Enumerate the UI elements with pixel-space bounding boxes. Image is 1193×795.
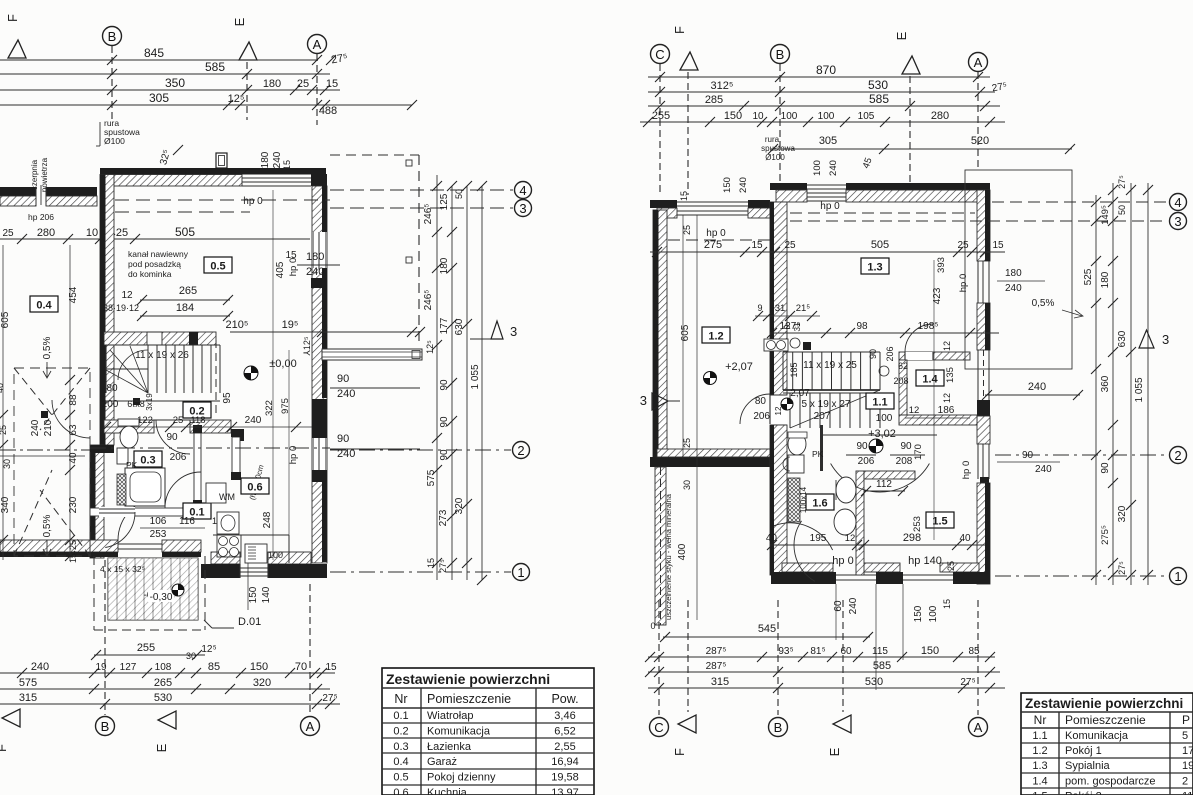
main top wall hatch xyxy=(107,175,242,187)
hp0 dash room 1.3 xyxy=(790,212,975,214)
svg-text:40: 40 xyxy=(766,533,778,544)
dim 127/98/198 y333 xyxy=(770,332,999,334)
svg-text:170: 170 xyxy=(913,444,924,460)
right wall lower dark xyxy=(312,470,327,482)
svg-text:200: 200 xyxy=(102,399,119,410)
svg-text:hp 140: hp 140 xyxy=(908,555,942,567)
svg-text:12: 12 xyxy=(942,393,952,403)
bath basins xyxy=(836,477,856,503)
svg-text:1.3: 1.3 xyxy=(1032,760,1047,772)
top dimension line 845 xyxy=(0,59,318,61)
room box 0.5 xyxy=(204,257,232,273)
svg-text:1.6: 1.6 xyxy=(812,498,827,510)
svg-text:312⁵: 312⁵ xyxy=(711,80,734,92)
svg-text:0: 0 xyxy=(783,324,792,329)
svg-text:118: 118 xyxy=(190,415,205,426)
left section top wall xyxy=(650,200,677,208)
svg-text:90: 90 xyxy=(1100,462,1111,474)
top wall window xyxy=(807,184,846,186)
svg-text:Pokój 2: Pokój 2 xyxy=(1065,790,1102,795)
svg-text:B: B xyxy=(776,47,785,62)
svg-text:1: 1 xyxy=(1174,569,1181,584)
svg-text:25: 25 xyxy=(173,415,184,426)
svg-text:198⁵: 198⁵ xyxy=(918,321,939,332)
svg-text:2,07: 2,07 xyxy=(790,388,810,399)
svg-text:15: 15 xyxy=(751,240,763,251)
svg-text:25: 25 xyxy=(297,78,309,90)
svg-text:149⁵: 149⁵ xyxy=(1100,205,1111,225)
right outer wall of left plan xyxy=(312,186,327,563)
dashed overhang outline right of plan xyxy=(418,155,420,345)
axis F triangle top-left xyxy=(8,40,26,58)
svg-text:150: 150 xyxy=(248,586,259,603)
svg-text:287⁵: 287⁵ xyxy=(706,661,727,672)
roof overhang rectangle right xyxy=(965,170,1072,369)
axis circle 2 right xyxy=(90,447,330,449)
svg-text:1.1: 1.1 xyxy=(872,397,887,409)
svg-text:Łazienka: Łazienka xyxy=(427,741,472,753)
svg-text:530: 530 xyxy=(868,78,888,92)
svg-text:12: 12 xyxy=(909,405,920,416)
svg-text:0.5: 0.5 xyxy=(393,772,408,784)
svg-text:320: 320 xyxy=(253,677,271,689)
svg-text:15: 15 xyxy=(426,558,436,568)
left outer wall upper part xyxy=(100,175,114,446)
svg-text:10: 10 xyxy=(752,111,764,122)
svg-text:240: 240 xyxy=(828,160,839,176)
svg-text:1.5: 1.5 xyxy=(932,516,947,528)
wall step at y445 xyxy=(90,445,114,453)
bottom dims right plan xyxy=(663,636,870,638)
stairs left plan xyxy=(147,345,149,393)
svg-text:hp 206: hp 206 xyxy=(28,212,54,222)
svg-text:0.4: 0.4 xyxy=(393,756,408,768)
svg-text:30: 30 xyxy=(2,459,12,469)
svg-text:Pokój 1: Pokój 1 xyxy=(1065,745,1102,757)
svg-text:605: 605 xyxy=(0,311,11,328)
svg-text:2: 2 xyxy=(517,443,524,458)
svg-text:488: 488 xyxy=(319,105,337,117)
svg-text:25: 25 xyxy=(2,228,14,239)
svg-text:575: 575 xyxy=(19,677,37,689)
right plan stairs upper flight xyxy=(783,351,880,353)
svg-text:27⁵: 27⁵ xyxy=(322,693,337,704)
svg-text:czerpnia: czerpnia xyxy=(30,159,39,190)
svg-text:975: 975 xyxy=(280,398,291,414)
svg-text:115: 115 xyxy=(872,646,888,657)
svg-text:100: 100 xyxy=(818,111,835,122)
svg-text:127: 127 xyxy=(120,662,137,673)
interior wall 1.4 bottom / hall xyxy=(899,415,977,425)
svg-text:423: 423 xyxy=(932,287,943,304)
axis C circle bottom xyxy=(658,600,660,715)
door arc 0.1 entry xyxy=(105,512,135,548)
dim 210/19 above canopy xyxy=(320,331,420,333)
svg-text:5 x 19 x 27: 5 x 19 x 27 xyxy=(802,399,851,410)
bottom dim line 1: 240/19/127/108/85/150/70/15 xyxy=(0,672,335,674)
door arc bath xyxy=(156,420,190,454)
svg-text:hp 0: hp 0 xyxy=(243,196,263,207)
door arc into 1.2 xyxy=(740,394,770,424)
svg-text:E: E xyxy=(827,747,842,756)
svg-text:Ø100: Ø100 xyxy=(765,153,785,162)
kitchen counter line xyxy=(213,534,289,536)
black square stair marker xyxy=(803,342,811,350)
svg-text:Ø100: Ø100 xyxy=(104,136,125,146)
svg-text:98: 98 xyxy=(856,321,868,332)
top wall hatch xyxy=(776,190,807,202)
svg-text:Pokoj dzienny: Pokoj dzienny xyxy=(427,772,496,784)
svg-text:0.6: 0.6 xyxy=(393,787,408,795)
axis triangle 3 right xyxy=(491,321,503,339)
middle wall door gap xyxy=(770,395,787,425)
top dimension line 350/180/25/15 xyxy=(0,89,340,91)
svg-text:B: B xyxy=(108,29,117,44)
svg-text:280: 280 xyxy=(931,110,949,122)
main top wall dark band xyxy=(100,168,326,175)
svg-text:108: 108 xyxy=(155,662,172,673)
axis circle 1 right xyxy=(330,571,511,573)
room box 1.5 xyxy=(926,512,954,528)
svg-text:11 x 19 x 25: 11 x 19 x 25 xyxy=(803,360,857,371)
svg-text:180: 180 xyxy=(306,251,324,263)
room box 0.2 xyxy=(183,402,211,418)
svg-text:530: 530 xyxy=(865,676,883,688)
svg-text:A: A xyxy=(974,720,983,735)
svg-text:1.1: 1.1 xyxy=(1032,730,1047,742)
svg-text:D.01: D.01 xyxy=(238,616,261,628)
svg-text:B: B xyxy=(101,719,110,734)
svg-text:60: 60 xyxy=(833,600,844,612)
room box 1.2 xyxy=(702,327,730,343)
kitchen sink xyxy=(217,512,239,534)
axis A circle top xyxy=(308,35,327,54)
svg-text:135: 135 xyxy=(945,367,956,383)
svg-text:F: F xyxy=(0,744,9,752)
svg-text:30: 30 xyxy=(682,480,692,490)
svg-text:15: 15 xyxy=(992,240,1004,251)
svg-text:180: 180 xyxy=(260,151,271,168)
svg-text:70: 70 xyxy=(295,661,307,673)
interior wall below bath y508 xyxy=(90,508,195,516)
svg-text:0.5: 0.5 xyxy=(210,261,225,273)
svg-text:11: 11 xyxy=(1182,790,1193,795)
svg-text:15: 15 xyxy=(325,662,337,673)
svg-text:25: 25 xyxy=(0,425,8,435)
dashed stair opening line xyxy=(215,340,217,415)
axis B circle bottom xyxy=(104,560,106,715)
hp0 dash room 1.2 xyxy=(668,239,770,241)
svg-text:116: 116 xyxy=(179,516,195,527)
svg-text:3: 3 xyxy=(519,201,526,216)
svg-text:19: 19 xyxy=(1182,760,1193,772)
axis A circle bottom xyxy=(309,584,311,715)
bottom dim line 2: 575/265/320 xyxy=(0,688,330,690)
dim line 287/93/81/60/115/150/85 xyxy=(648,656,995,658)
svg-text:kanał nawiewny: kanał nawiewny xyxy=(128,249,189,259)
room box 1.1 xyxy=(866,393,894,409)
svg-text:240: 240 xyxy=(738,177,749,193)
svg-text:585: 585 xyxy=(205,60,225,74)
dim 122/25/118/240 y427 xyxy=(104,426,312,428)
garage vent gap xyxy=(35,187,37,206)
garage top wall xyxy=(0,187,36,196)
svg-text:315: 315 xyxy=(711,676,729,688)
top dim 255/150/10/100/100/105/280 xyxy=(640,121,1005,123)
right plan: right side dim chains xyxy=(1095,195,1097,585)
svg-text:505: 505 xyxy=(175,225,195,239)
entry door opening xyxy=(118,543,162,545)
axis A circle bottom right plan xyxy=(977,600,979,715)
svg-text:do kominka: do kominka xyxy=(128,269,172,279)
right wall dark block mid xyxy=(312,399,327,438)
svg-text:105: 105 xyxy=(858,111,875,122)
middle wall between 1.2 and 1.3 xyxy=(770,202,787,395)
svg-text:F: F xyxy=(672,748,687,756)
interior wall hall/room0.5 y332 xyxy=(104,332,147,345)
insulation strip below xyxy=(655,467,666,625)
svg-text:0,5%: 0,5% xyxy=(42,336,53,359)
svg-text:150: 150 xyxy=(250,661,268,673)
svg-text:1 055: 1 055 xyxy=(470,364,481,389)
labels 195/12/298/40 y545 xyxy=(770,544,985,546)
dashed lines hp0 in room 0.5 xyxy=(115,199,330,201)
svg-text:27⁵: 27⁵ xyxy=(1117,175,1127,189)
axis circle 1 right plan xyxy=(995,575,1166,577)
svg-text:12⁵: 12⁵ xyxy=(425,340,435,354)
svg-text:31: 31 xyxy=(793,322,802,331)
svg-text:100: 100 xyxy=(876,413,893,424)
svg-text:275: 275 xyxy=(704,239,722,251)
top wall right dark block xyxy=(311,174,326,186)
garage axis dash-dot y450 xyxy=(0,449,90,451)
axis F triangle bottom-left xyxy=(2,709,20,727)
svg-text:405: 405 xyxy=(275,261,286,278)
svg-text:255: 255 xyxy=(652,110,670,122)
svg-text:25: 25 xyxy=(946,561,956,571)
svg-text:90: 90 xyxy=(439,379,450,391)
svg-text:Komunikacja: Komunikacja xyxy=(1065,730,1129,742)
svg-text:240: 240 xyxy=(31,661,49,673)
svg-text:4: 4 xyxy=(1174,195,1181,210)
room 1.2 bottom wall xyxy=(650,457,777,467)
svg-text:150: 150 xyxy=(921,645,939,657)
svg-text:B: B xyxy=(774,720,783,735)
svg-text:3: 3 xyxy=(640,393,647,408)
svg-text:90: 90 xyxy=(166,432,178,443)
svg-text:Pow.: Pow. xyxy=(551,692,578,706)
svg-text:17: 17 xyxy=(1182,745,1193,757)
svg-text:545: 545 xyxy=(758,623,776,635)
axis F triangle bottom right plan xyxy=(678,715,696,733)
survey +2,07 xyxy=(704,372,717,385)
svg-text:38·19·12: 38·19·12 xyxy=(103,303,139,313)
svg-text:100x14: 100x14 xyxy=(799,486,808,513)
svg-text:40: 40 xyxy=(959,533,971,544)
WM washing machine xyxy=(206,483,226,503)
svg-text:PK: PK xyxy=(812,449,824,459)
svg-text:12: 12 xyxy=(942,341,952,351)
svg-text:40: 40 xyxy=(0,383,5,393)
axis B circle top xyxy=(103,27,122,46)
axis B circle bottom right plan xyxy=(777,600,779,715)
svg-text:90: 90 xyxy=(856,441,868,452)
black square door marker xyxy=(133,398,140,405)
top dim 312/530 xyxy=(648,91,995,93)
small fixtures near stairs xyxy=(764,339,788,351)
svg-text:3x19: 3x19 xyxy=(145,393,154,411)
svg-text:+2,07: +2,07 xyxy=(725,361,753,373)
svg-text:3,46: 3,46 xyxy=(554,710,575,722)
door arc garage entry xyxy=(52,400,90,438)
svg-text:1.2: 1.2 xyxy=(1032,745,1047,757)
svg-text:208: 208 xyxy=(896,456,913,467)
bathroom fixtures: toilet xyxy=(120,426,138,448)
svg-text:845: 845 xyxy=(144,46,164,60)
axis E triangle top right-plan xyxy=(902,56,920,74)
svg-text:25: 25 xyxy=(682,438,692,448)
svg-text:E: E xyxy=(894,31,909,40)
svg-text:150: 150 xyxy=(722,177,733,193)
svg-text:100: 100 xyxy=(781,111,798,122)
svg-text:3: 3 xyxy=(1174,214,1181,229)
svg-text:106: 106 xyxy=(150,516,167,527)
svg-text:255: 255 xyxy=(137,642,155,654)
svg-text:Nr: Nr xyxy=(1034,713,1047,727)
+3,02 survey xyxy=(869,439,883,453)
svg-text:208: 208 xyxy=(893,376,908,386)
right wall window 2 xyxy=(312,438,327,470)
axis F triangle top right-plan xyxy=(680,52,698,70)
svg-text:240: 240 xyxy=(1028,381,1046,393)
svg-text:95: 95 xyxy=(222,392,233,404)
svg-text:206: 206 xyxy=(170,452,187,463)
entry door arc into 0.1 xyxy=(118,498,160,540)
svg-text:Sypialnia: Sypialnia xyxy=(1065,760,1111,772)
svg-text:Pomieszczenie: Pomieszczenie xyxy=(1065,713,1146,727)
svg-text:85: 85 xyxy=(208,661,220,673)
right side dim chains of left plan xyxy=(436,175,438,580)
svg-text:340: 340 xyxy=(0,496,11,513)
svg-text:3: 3 xyxy=(1162,332,1169,347)
vestibule door arc big xyxy=(831,464,930,493)
svg-text:12: 12 xyxy=(845,533,856,544)
axis triangle 3 right plan xyxy=(1139,330,1154,348)
duct crosshatch right plan xyxy=(788,478,800,522)
svg-text:0,5%: 0,5% xyxy=(42,514,53,537)
svg-text:90: 90 xyxy=(900,441,912,452)
svg-text:5: 5 xyxy=(1182,730,1188,742)
svg-text:248: 248 xyxy=(262,511,273,528)
svg-text:12: 12 xyxy=(121,290,133,301)
svg-text:90: 90 xyxy=(337,373,349,385)
room box 0.3 xyxy=(134,451,162,467)
svg-text:Garaż: Garaż xyxy=(427,756,457,768)
svg-text:630: 630 xyxy=(1117,330,1128,347)
svg-text:2,55: 2,55 xyxy=(554,741,575,753)
svg-text:15: 15 xyxy=(679,191,689,201)
svg-text:62: 62 xyxy=(898,361,908,371)
svg-text:80: 80 xyxy=(755,396,767,407)
svg-text:15: 15 xyxy=(285,250,297,261)
svg-text:240: 240 xyxy=(1005,283,1022,294)
svg-text:206: 206 xyxy=(753,411,770,422)
kitchen fridge with grid xyxy=(245,544,267,563)
right wall window 1 (hp0) xyxy=(312,232,327,268)
bottom wall left section (entry) xyxy=(90,540,118,552)
svg-text:90: 90 xyxy=(439,416,450,428)
entry stairs outside xyxy=(108,558,198,620)
svg-text:1.2: 1.2 xyxy=(708,331,723,343)
svg-text:240: 240 xyxy=(30,419,41,436)
svg-text:A: A xyxy=(306,719,315,734)
svg-text:520: 520 xyxy=(971,135,989,147)
svg-text:0.4: 0.4 xyxy=(36,300,52,312)
svg-text:240: 240 xyxy=(245,415,262,426)
svg-text:585: 585 xyxy=(873,660,891,672)
svg-text:Wiatrołap: Wiatrołap xyxy=(427,710,473,722)
svg-text:Komunikacja: Komunikacja xyxy=(427,725,491,737)
svg-text:90: 90 xyxy=(337,433,349,445)
bath 1.6 partition right xyxy=(820,425,823,471)
svg-text:hp 0: hp 0 xyxy=(288,446,299,465)
svg-text:Kuchnia: Kuchnia xyxy=(427,787,468,795)
svg-text:spustowa: spustowa xyxy=(761,144,795,153)
svg-text:E: E xyxy=(154,743,169,752)
dim line 287/585 xyxy=(648,671,1000,673)
right plan stairs lower flight xyxy=(789,393,791,428)
top dim 285/585 xyxy=(648,105,1000,107)
svg-text:25: 25 xyxy=(957,240,969,251)
svg-text:100: 100 xyxy=(928,605,939,622)
svg-text:13,97: 13,97 xyxy=(551,787,579,795)
stair walking line arc xyxy=(118,350,148,380)
right wall window room 1.5 xyxy=(977,444,979,479)
svg-text:285: 285 xyxy=(705,94,723,106)
svg-text:180: 180 xyxy=(439,257,450,274)
svg-text:246⁵: 246⁵ xyxy=(423,290,434,311)
svg-text:4: 4 xyxy=(519,183,526,198)
interior wall hall/bath y420 xyxy=(104,420,154,433)
duct crosshatch bath xyxy=(117,474,126,505)
svg-text:100: 100 xyxy=(268,550,283,560)
svg-text:19,58: 19,58 xyxy=(551,772,579,784)
svg-text:4 x 15 x 32⁵: 4 x 15 x 32⁵ xyxy=(100,564,145,574)
svg-text:0: 0 xyxy=(650,621,655,631)
svg-text:hp 0: hp 0 xyxy=(706,228,726,239)
door arc kitchen/entry xyxy=(165,472,201,508)
room box 0.6 xyxy=(241,478,269,494)
svg-text:60: 60 xyxy=(840,646,852,657)
svg-text:Nr: Nr xyxy=(394,692,407,706)
right plan right outer wall xyxy=(977,190,990,261)
svg-text:0.2: 0.2 xyxy=(393,725,408,737)
bathtub xyxy=(125,468,165,506)
svg-text:400: 400 xyxy=(677,543,688,560)
svg-text:30: 30 xyxy=(186,651,196,661)
svg-text:80: 80 xyxy=(106,383,118,394)
svg-text:320: 320 xyxy=(1117,505,1128,522)
dim 255 below plan xyxy=(94,654,205,656)
svg-text:298: 298 xyxy=(903,532,921,544)
svg-text:112: 112 xyxy=(876,479,892,490)
svg-text:0.3: 0.3 xyxy=(140,455,155,467)
svg-text:322: 322 xyxy=(264,400,275,416)
svg-text:505: 505 xyxy=(871,239,889,251)
svg-text:15: 15 xyxy=(942,599,952,609)
bottom wall right section (kitchen) xyxy=(211,552,240,564)
svg-text:0.3: 0.3 xyxy=(393,741,408,753)
